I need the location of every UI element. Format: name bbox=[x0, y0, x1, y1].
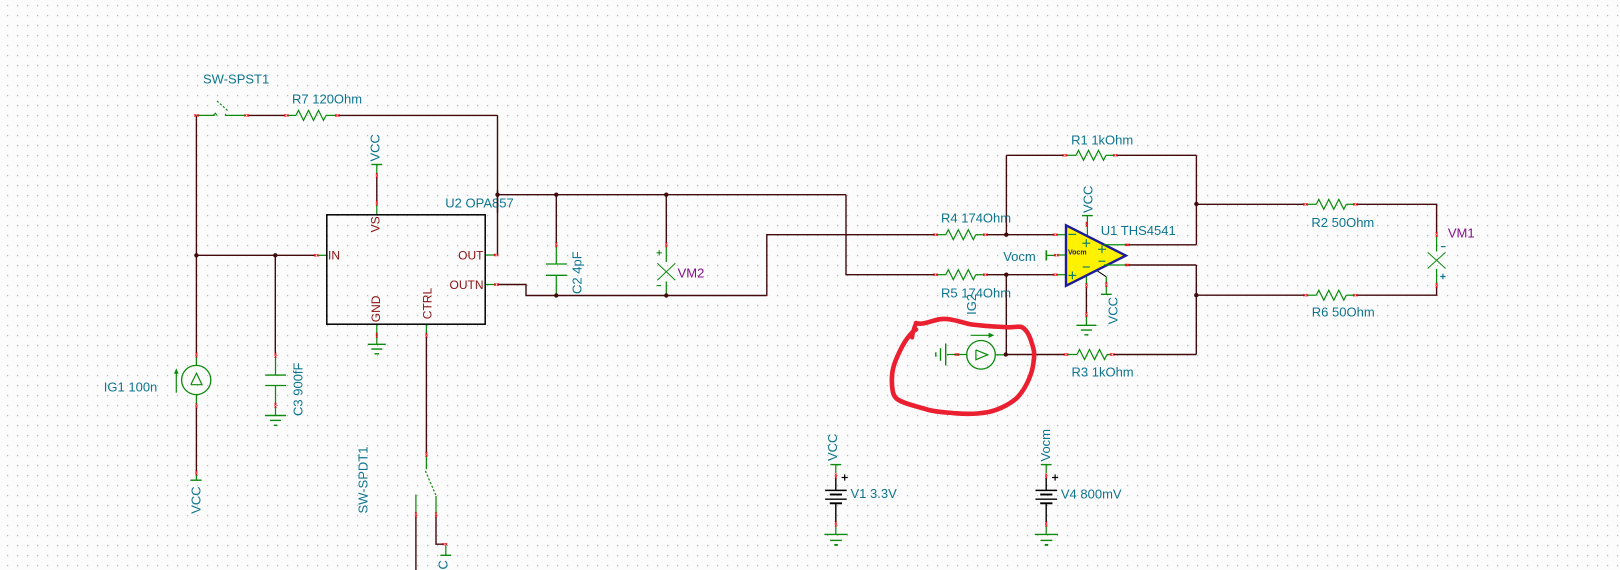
svg-text:VCC: VCC bbox=[1081, 186, 1096, 213]
svg-text:VM2: VM2 bbox=[678, 266, 705, 281]
svg-text:U1 THS4541: U1 THS4541 bbox=[1101, 223, 1176, 238]
svg-text:OUTN: OUTN bbox=[450, 278, 484, 292]
svg-text:VCC: VCC bbox=[436, 560, 451, 570]
svg-text:R4 174Ohm: R4 174Ohm bbox=[941, 210, 1011, 225]
svg-text:GND: GND bbox=[369, 295, 383, 322]
svg-text:V4 800mV: V4 800mV bbox=[1061, 487, 1122, 502]
svg-text:R6 50Ohm: R6 50Ohm bbox=[1312, 304, 1375, 319]
svg-text:VM1: VM1 bbox=[1448, 225, 1475, 240]
svg-text:C2 4pF: C2 4pF bbox=[570, 251, 585, 294]
svg-text:C3 900fF: C3 900fF bbox=[291, 362, 306, 416]
svg-text:Vocm: Vocm bbox=[1038, 429, 1053, 462]
svg-text:Vocm: Vocm bbox=[1068, 249, 1087, 256]
svg-text:SW-SPDT1: SW-SPDT1 bbox=[356, 447, 371, 514]
svg-text:R7 120Ohm: R7 120Ohm bbox=[292, 92, 362, 107]
svg-text:VCC: VCC bbox=[1106, 297, 1121, 324]
svg-text:IN: IN bbox=[328, 249, 340, 263]
svg-text:SW-SPST1: SW-SPST1 bbox=[203, 72, 269, 87]
svg-text:R1 1kOhm: R1 1kOhm bbox=[1071, 132, 1133, 147]
svg-text:Vocm: Vocm bbox=[1003, 249, 1036, 264]
svg-text:R2 50Ohm: R2 50Ohm bbox=[1311, 215, 1374, 230]
svg-text:VCC: VCC bbox=[825, 434, 840, 461]
svg-text:U2 OPA857: U2 OPA857 bbox=[445, 196, 513, 211]
svg-text:V1 3.3V: V1 3.3V bbox=[851, 486, 898, 501]
svg-text:VCC: VCC bbox=[368, 134, 383, 161]
svg-text:VS: VS bbox=[369, 216, 383, 232]
svg-text:OUT: OUT bbox=[458, 249, 484, 263]
svg-text:R3 1kOhm: R3 1kOhm bbox=[1072, 365, 1134, 380]
svg-text:VCC: VCC bbox=[189, 486, 204, 513]
svg-text:CTRL: CTRL bbox=[421, 288, 435, 320]
svg-text:IG1 100n: IG1 100n bbox=[104, 380, 158, 395]
svg-text:IG2: IG2 bbox=[964, 294, 979, 315]
